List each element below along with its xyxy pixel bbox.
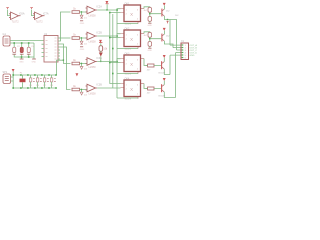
svg-text:IC7A: IC7A — [43, 13, 49, 16]
wire: U1 pin stubs — [42, 44, 61, 59]
svg-text:GND: GND — [80, 49, 85, 51]
svg-text:GND: GND — [148, 50, 153, 52]
junction nodes on rail A — [109, 12, 111, 64]
pin stubs OK4 — [121, 84, 145, 99]
transistor T3 — [161, 61, 163, 69]
wire: R7/R8 chain — [150, 37, 162, 47]
varistor RV2 — [36, 78, 41, 82]
wire: cluster1 node — [80, 12, 87, 15]
wire: T4 collector/emitter — [164, 53, 175, 98]
junction node — [81, 37, 82, 38]
wire: OK4 bottom loop — [117, 97, 138, 99]
transistor T2 — [161, 34, 163, 42]
svg-text:SP1: SP1 — [3, 71, 8, 74]
wire: jack pin2 to cap rail — [10, 43, 34, 57]
junction node — [81, 89, 82, 90]
wire: OK3 right pin to R10 — [144, 59, 148, 66]
junction nodes on rail B — [112, 48, 114, 75]
svg-text:IC6A: IC6A — [19, 13, 25, 16]
svg-text:OK3: OK3 — [125, 52, 130, 55]
wire: cluster3 node — [80, 64, 87, 67]
resistor R5 — [148, 7, 152, 12]
diode D9 — [99, 53, 102, 56]
svg-text:GND: GND — [32, 61, 37, 63]
ground GND6 — [148, 47, 151, 49]
resistor R9 (pull-up) — [99, 46, 103, 52]
wire: buffer2 out to OK2 — [97, 34, 120, 36]
wire: OK1 bottom loop — [117, 23, 138, 25]
svg-text:IC2B: IC2B — [97, 32, 103, 35]
wire: fuse leads — [22, 75, 24, 88]
svg-text:OK2: OK2 — [125, 27, 130, 30]
resistor R10 — [148, 64, 154, 67]
wire: OK2 right pin to R7 — [144, 32, 150, 34]
optocoupler OK4 — [124, 80, 141, 97]
svg-text:GND: GND — [80, 23, 85, 25]
wire: OK2 bottom loop — [117, 48, 138, 50]
wire: buffer1 out to OK1 — [97, 9, 120, 10]
svg-text:LM358: LM358 — [89, 94, 97, 96]
speaker SP1 — [3, 74, 11, 84]
varistor RV1 — [29, 78, 34, 82]
svg-text:GND: GND — [190, 55, 195, 57]
ground GND2 — [32, 58, 36, 60]
junction nodes on cap rail — [13, 42, 29, 58]
junction node — [167, 19, 168, 20]
svg-text:TL072: TL072 — [12, 21, 20, 24]
IC U1 (codec) — [44, 36, 58, 63]
junction node — [63, 59, 64, 60]
ground GND3 — [80, 20, 83, 22]
wire: R10 to T3 base — [146, 65, 162, 67]
optocoupler OK3 — [124, 55, 141, 72]
svg-text:LM358: LM358 — [89, 67, 97, 69]
power flag P+9 — [163, 78, 165, 80]
svg-text:BC547: BC547 — [159, 95, 166, 97]
wire: cluster4 node — [80, 90, 87, 93]
diode D4 — [80, 92, 83, 95]
diode D3 — [80, 67, 83, 70]
wire: jack pin1 to IC U1 — [10, 40, 44, 42]
junction nodes on rail C — [116, 9, 118, 62]
junction node — [100, 61, 101, 62]
transistor T1 — [161, 9, 163, 17]
wire: U1 pin down to cluster4 — [58, 47, 71, 90]
wire: T1 collector/emitter — [164, 6, 176, 50]
op-amp buffer IC3B — [86, 84, 98, 92]
wire: supply into op-amp IC7A — [32, 10, 35, 16]
wire: pull-up chain — [100, 43, 102, 61]
svg-text:TL072: TL072 — [36, 21, 44, 24]
op-amp buffer IC2B — [86, 32, 98, 40]
wire: OK1 right pin to R5 — [144, 7, 150, 9]
diode D1 — [80, 15, 83, 18]
power flag P+8 — [163, 55, 165, 57]
junction node — [149, 13, 150, 14]
svg-text:IC3A: IC3A — [97, 57, 103, 60]
junction node — [81, 63, 82, 64]
pin stubs OK2 — [121, 34, 145, 49]
svg-text:GND: GND — [19, 61, 24, 63]
wire: supply into op-amp IC6A — [8, 10, 11, 16]
resistor R7 — [148, 32, 152, 37]
power flag P+3 — [105, 1, 108, 3]
wire: speaker to ladder — [11, 72, 14, 89]
svg-text:OK4: OK4 — [125, 77, 130, 80]
fuse F1 — [20, 79, 26, 83]
capacitor C1 — [13, 47, 16, 52]
wire: supply stub to node — [106, 4, 108, 10]
svg-text:LM358: LM358 — [89, 42, 97, 44]
resistor R1 — [72, 11, 80, 14]
power symbol GND-arrow — [166, 21, 168, 23]
junction node — [149, 38, 150, 39]
wire: OK4 right pin to R11 — [144, 84, 148, 89]
resistor R4 — [72, 88, 80, 91]
wire: OK3 bottom loop — [117, 73, 138, 75]
pin stubs OK1 — [121, 9, 145, 24]
wire: U1 pin up to cluster1 — [58, 12, 71, 41]
resistor R8 — [148, 42, 152, 47]
ground GND1 — [20, 58, 24, 60]
op-amp IC6A — [9, 12, 21, 20]
connector G1 (jack) — [3, 36, 10, 46]
junction node — [106, 9, 107, 10]
wire: U1 pin to cluster2 — [58, 37, 71, 39]
svg-text:S202S: S202S — [125, 99, 132, 101]
op-amp IC7A — [33, 12, 45, 20]
wire: connector feed lines — [170, 45, 181, 55]
wire: rail A x110.5 — [110, 13, 121, 84]
wire: rail B x113.5 — [112, 14, 114, 88]
junction nodes on ladder rails — [12, 74, 56, 89]
ground GND4 — [80, 46, 83, 48]
svg-text:IC2A: IC2A — [97, 6, 103, 9]
power flag P+4 — [99, 40, 102, 42]
wire: ladder bottom rail — [13, 87, 56, 89]
resistor R11 — [148, 87, 154, 90]
varistor RV3 — [43, 78, 48, 82]
wire: ladder rail up to cluster3 line — [57, 60, 64, 75]
optocoupler OK1 — [124, 5, 141, 22]
diode D2 — [80, 41, 83, 44]
resistor R2 — [72, 37, 80, 40]
wire: R11 to T4 base — [146, 88, 162, 90]
pin stubs OK3 — [121, 59, 145, 74]
varistor RV4 — [50, 78, 55, 82]
wire: ladder top rail — [13, 74, 56, 76]
wire: capacitor stubs — [14, 43, 34, 59]
ground GND5 — [148, 22, 151, 24]
svg-text:IC3B: IC3B — [97, 84, 103, 87]
wire: buffer3 out to OK3 — [97, 59, 120, 62]
power flag P+7 — [163, 28, 165, 30]
svg-text:BC547: BC547 — [159, 72, 166, 74]
svg-text:LM358: LM358 — [89, 16, 97, 18]
wire: cluster2 node — [80, 38, 87, 41]
op-amp buffer IC3A — [86, 58, 98, 66]
power flag P+5 — [76, 74, 78, 76]
junction node — [81, 11, 82, 12]
wire: U1 pin down to cluster3 — [58, 44, 71, 64]
wire: rail C x116.8 — [116, 10, 118, 98]
wire: R5/R6 chain — [150, 12, 162, 22]
op-amp buffer IC2A — [86, 6, 98, 14]
wire: buffer4 out to OK4 — [97, 87, 120, 89]
power flag P+11 — [12, 69, 14, 71]
resistor R3 — [72, 62, 80, 65]
resistor R6 — [148, 17, 152, 22]
capacitor C3 — [27, 47, 30, 52]
transistor T4 — [161, 84, 163, 92]
power flag P+2 — [30, 8, 33, 9]
svg-text:GND: GND — [148, 25, 153, 27]
capacitor C2 — [20, 47, 23, 52]
wire: T3 collector/emitter — [164, 55, 170, 74]
connector X1 — [181, 43, 189, 60]
svg-text:OK1: OK1 — [125, 2, 130, 5]
wire: T2 collector/emitter — [164, 31, 173, 48]
power flag P+1 — [6, 8, 9, 9]
optocoupler OK2 — [124, 30, 141, 47]
power flag P+6 — [163, 3, 165, 5]
